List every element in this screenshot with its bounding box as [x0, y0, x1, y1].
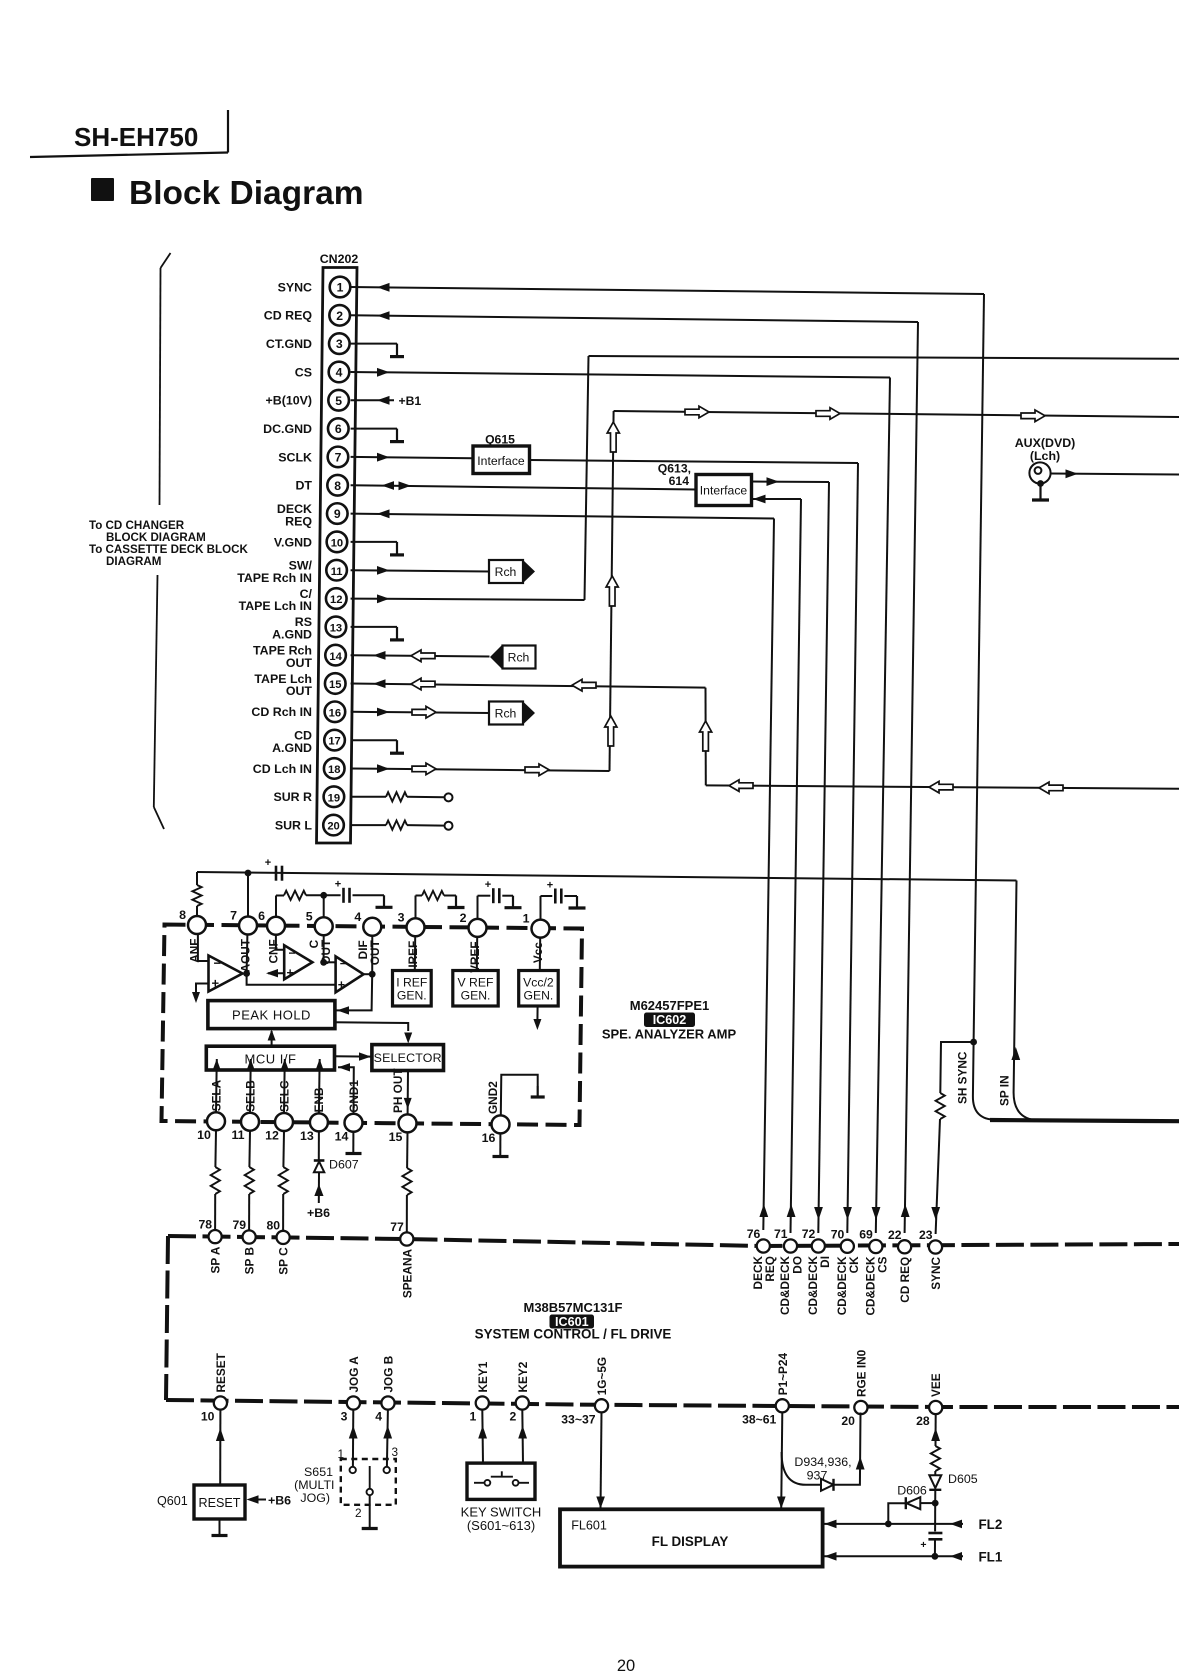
wire CNF pin6 to A2 inverting input: [276, 935, 284, 950]
IC602 dashed boundary: [162, 925, 583, 1126]
thick speaker line to page edge: [990, 1120, 1179, 1121]
wire IC602 pin6 up: [275, 896, 277, 926]
wire A3 output to DIF OUT pin4: [364, 973, 373, 975]
ground at pin3: [396, 344, 398, 357]
wire IC602 pin3 up: [415, 896, 417, 928]
svg-text:SPE. ANALYZER AMP: SPE. ANALYZER AMP: [602, 1027, 737, 1042]
svg-text:JOG B: JOG B: [382, 1356, 396, 1393]
wire pin20 SUR L with resistor: [351, 824, 386, 826]
IC602 pin 8: [188, 916, 206, 934]
open arrow left on pin15 wire (2): [572, 679, 596, 691]
svg-text:RESET: RESET: [214, 1352, 228, 1392]
wire DIF OUT down to PEAK HOLD with arrow: [337, 974, 373, 1010]
svg-text:1G~5G: 1G~5G: [595, 1357, 609, 1395]
open arrow left on return line (1): [729, 780, 753, 792]
svg-text:+: +: [547, 879, 553, 891]
junction dot above pin5: [320, 892, 327, 899]
arrowhead up on SP IN riser: [1011, 1047, 1020, 1060]
title Block Diagram: [91, 175, 364, 212]
junction dot SH SYNC node: [970, 1039, 977, 1046]
open arrow right on pin18 wire (2): [525, 764, 549, 776]
svg-text:+B6: +B6: [268, 1494, 291, 1508]
svg-text:14: 14: [329, 651, 342, 663]
IC601 pin 23: [929, 1240, 942, 1253]
svg-text:CD REQ: CD REQ: [264, 309, 313, 323]
wire SH SYNC branch to pin23 with resistor: [940, 1042, 973, 1093]
svg-text:V REF: V REF: [458, 976, 494, 990]
wire SELB MCU to pin11 with arrow: [249, 1070, 252, 1113]
wire pin18 CD Lch IN to riser: [351, 769, 610, 772]
svg-text:P1~P24: P1~P24: [776, 1353, 790, 1396]
arrowhead +B6 into RESET box: [247, 1495, 259, 1503]
svg-text:937: 937: [807, 1469, 828, 1483]
arrowhead FL2: [950, 1520, 962, 1529]
svg-text:SUR L: SUR L: [275, 818, 313, 832]
svg-text:4: 4: [336, 366, 343, 380]
svg-text:Vcc/2: Vcc/2: [523, 976, 554, 990]
arrowhead into pin14: [373, 651, 386, 660]
IC601 pin 72: [812, 1239, 825, 1252]
svg-text:80: 80: [267, 1218, 281, 1232]
svg-text:VEE: VEE: [929, 1373, 943, 1397]
arrowhead out of pin4: [377, 368, 390, 377]
arrowhead into pin1: [377, 283, 390, 292]
IC602 pin 2: [469, 919, 487, 937]
open terminal SUR L: [445, 822, 453, 830]
wire diodes to RGE IN0 pin20 with arrow: [834, 1413, 861, 1485]
svg-text:3: 3: [398, 910, 405, 924]
wire A2 non-inverting input with left arrow: [268, 972, 284, 974]
svg-text:(Lch): (Lch): [1030, 449, 1060, 463]
svg-text:78: 78: [199, 1218, 213, 1232]
IC602 pin 14: [345, 1114, 363, 1132]
open arrow right on pin18 wire (1): [412, 763, 436, 775]
wire CS vertical (pin4 to IC601 pin69): [876, 378, 890, 1234]
IC601 dashed boundary lower line: [166, 1400, 1179, 1407]
open arrow up on pin18 riser (2): [606, 576, 618, 606]
svg-text:20: 20: [327, 821, 339, 833]
svg-text:AOUT: AOUT: [239, 938, 253, 972]
IC602 pin 3: [407, 918, 425, 936]
capacitor above pin1 (+): [554, 889, 557, 904]
wire GND1 pin14 up and left into MCU I/F with arrow: [338, 1067, 354, 1113]
svg-text:8: 8: [334, 479, 341, 493]
svg-text:12: 12: [265, 1129, 279, 1143]
wire pin7 SCLK to interface Q615: [351, 457, 473, 458]
ground below IC602 pin16: [499, 1133, 501, 1155]
svg-text:Interface: Interface: [700, 484, 748, 498]
arrowhead up on IC601 pin76 wire: [759, 1204, 768, 1217]
CN202 pin 16: [325, 702, 346, 723]
svg-text:SPEANA: SPEANA: [400, 1249, 414, 1299]
page header tab SH-EH750: [30, 110, 228, 157]
wire IC602 pin10 to IC601 pin78 with resistor: [214, 1130, 217, 1167]
svg-text:76: 76: [747, 1227, 761, 1241]
wire CD REQ vertical (pin2 to IC601 pin22): [905, 322, 918, 1233]
arrowhead into pin9: [377, 509, 390, 518]
ground at AUX jack: [1039, 486, 1041, 500]
wire IC602 pin2 up: [477, 896, 479, 928]
svg-text:17: 17: [328, 736, 340, 748]
capacitor on top rail (+): [275, 866, 278, 881]
ground right of pin5 capacitor: [383, 895, 385, 907]
svg-text:FL DISPLAY: FL DISPLAY: [652, 1534, 729, 1549]
diode D607 on IC602 pin13 supply: [318, 1131, 320, 1160]
CN202 pin 5: [328, 390, 349, 411]
svg-text:SP A: SP A: [209, 1246, 223, 1273]
wire pin18 top line to page edge: [614, 411, 1179, 417]
op-amp A1 (ANF): [209, 956, 243, 992]
wire branch from P1~P24 to diodes D934,936,937: [782, 1452, 820, 1485]
open arrow left on pin14 wire: [411, 650, 435, 662]
open arrow up on TAPE Lch jog: [700, 721, 712, 751]
svg-text:SYNC: SYNC: [278, 280, 312, 294]
svg-text:D934,936,: D934,936,: [794, 1455, 851, 1469]
wire pin4 CS to corner: [351, 372, 890, 378]
IC601 pin 28: [929, 1401, 942, 1414]
svg-text:3: 3: [341, 1410, 348, 1424]
wire pin14 TAPE Rch OUT from tag: [351, 655, 490, 656]
wire AOUT pin7 down to A1 output: [246, 935, 249, 974]
IC601 pin 1: [476, 1396, 489, 1409]
CN202 pin 18: [324, 758, 345, 779]
arrowhead down on IC601 pin23 wire: [931, 1207, 940, 1220]
svg-text:614: 614: [669, 474, 690, 488]
svg-text:72: 72: [802, 1227, 816, 1241]
CN202 pin 9: [327, 503, 348, 524]
open arrow right on pin18 top line (2): [816, 408, 840, 420]
svg-text:OUT: OUT: [286, 684, 313, 698]
IC602 pin 6: [267, 917, 285, 935]
svg-text:−: −: [289, 946, 296, 960]
svg-text:V.GND: V.GND: [274, 535, 312, 549]
svg-text:Rch: Rch: [495, 565, 517, 579]
svg-text:D607: D607: [329, 1158, 359, 1172]
IC601 pin 38~61: [776, 1399, 789, 1412]
wire AUX jack output to page edge: [1051, 474, 1179, 475]
svg-text:Rch: Rch: [495, 707, 517, 721]
svg-text:TAPE Rch IN: TAPE Rch IN: [237, 571, 312, 585]
svg-text:(MULTI: (MULTI: [294, 1478, 334, 1492]
wire Vcc pin1 down to Vcc/2 GEN: [539, 938, 541, 971]
svg-text:OUT: OUT: [286, 656, 313, 670]
ground inside IC602 (GND2): [537, 1086, 539, 1097]
open arrow right on pin18 top line (3): [1021, 410, 1045, 422]
IC601 pin 3: [347, 1396, 360, 1409]
svg-text:SUR R: SUR R: [273, 790, 312, 804]
svg-text:22: 22: [888, 1228, 902, 1242]
op-amp A2 (CNF): [284, 945, 312, 979]
arrowhead into pin8 (left): [382, 481, 395, 490]
block KEY SWITCH: [467, 1463, 535, 1499]
svg-text:69: 69: [859, 1228, 873, 1242]
svg-text:Block Diagram: Block Diagram: [129, 175, 364, 212]
IC601 pin 69: [869, 1240, 882, 1253]
IC601 pin 2: [516, 1396, 529, 1409]
IC601 pin 78: [209, 1230, 222, 1243]
S651 contact 1: [350, 1467, 356, 1473]
svg-text:+: +: [338, 978, 345, 992]
wire Q613 input from IC601 pin71: [752, 498, 802, 500]
wire pin16 CD Rch IN to tag: [351, 712, 490, 713]
IC602 pin 15: [399, 1114, 417, 1132]
interface box Q613,614: [658, 462, 752, 506]
svg-text:1: 1: [337, 281, 344, 295]
svg-text:28: 28: [916, 1414, 930, 1428]
diode D606: [905, 1497, 907, 1509]
top rail capacitor line (AOUT to SP IN corner): [197, 872, 1017, 881]
resistor pin6 to pin5 junction: [284, 891, 306, 900]
svg-text:16: 16: [329, 707, 341, 719]
wire ANF to op-amp A1 inverting input: [198, 934, 209, 961]
svg-text:KEY2: KEY2: [516, 1361, 530, 1392]
wire FL1 line into FL DISPLAY with arrow: [824, 1555, 935, 1557]
ground at pin13: [396, 627, 398, 640]
wire IC601 P1~P24 to FL DISPLAY with arrow: [781, 1412, 782, 1509]
svg-text:JOG): JOG): [300, 1491, 330, 1505]
svg-text:FL1: FL1: [979, 1550, 1003, 1565]
wire Q613 output to IC601 pin72: [752, 481, 830, 484]
block MCU I/F: [206, 1046, 334, 1070]
CN202 pin 20: [323, 815, 344, 836]
S651 pole lever: [369, 1466, 371, 1489]
wire SELA MCU to pin10 with arrow: [215, 1070, 218, 1113]
svg-text:IREF: IREF: [406, 941, 420, 968]
svg-text:RGE IN0: RGE IN0: [854, 1349, 868, 1397]
svg-text:+B1: +B1: [399, 394, 422, 408]
arrowhead on pin8 wire (right): [399, 481, 412, 490]
wire ENB MCU to pin13 with arrow: [318, 1070, 321, 1113]
wire FL1 from right: [935, 1555, 963, 1557]
note To CD CHANGER / CASSETTE DECK bracket: [154, 253, 171, 829]
wire KEY SWITCH to IC601 pin1 with arrow: [481, 1410, 484, 1464]
wire PEAK HOLD output to SELECTOR with arrow: [335, 1022, 408, 1031]
svg-text:ENB: ENB: [312, 1087, 326, 1112]
wire VEE pin28 down with arrow: [935, 1414, 937, 1446]
resistor on SUR L: [386, 821, 407, 830]
svg-text:DIAGRAM: DIAGRAM: [106, 555, 161, 568]
svg-text:S651: S651: [304, 1465, 333, 1479]
arrowhead out of Q613 interface: [767, 477, 780, 486]
open arrow right on pin16 wire: [412, 706, 436, 718]
arrowhead out of pin7: [377, 453, 390, 462]
arrowhead on AUX output: [1066, 469, 1079, 478]
label KEY SWITCH (S601~613): [461, 1505, 542, 1534]
wire pin18 riser with open up arrows: [610, 411, 614, 771]
svg-text:M62457FPE1: M62457FPE1: [630, 998, 710, 1013]
op-amp A3 (DIF): [336, 956, 364, 992]
wire S651 pole to ground: [369, 1495, 371, 1527]
wire SELC MCU to pin12 with arrow: [283, 1070, 286, 1113]
svg-text:13: 13: [330, 622, 342, 634]
svg-text:+: +: [485, 879, 491, 891]
svg-text:18: 18: [328, 764, 340, 776]
CN202 pin 1: [330, 277, 351, 298]
svg-text:SH SYNC: SH SYNC: [956, 1051, 970, 1104]
svg-text:Rch: Rch: [508, 651, 530, 665]
svg-text:OUT: OUT: [368, 940, 382, 966]
wire IC602 pin12 to IC601 pin80 with resistor: [282, 1131, 285, 1167]
svg-text:(S601~613): (S601~613): [467, 1518, 535, 1533]
svg-text:3: 3: [336, 337, 343, 351]
CN202 pin 15: [325, 673, 346, 694]
svg-text:13: 13: [300, 1129, 314, 1143]
svg-text:1: 1: [337, 1447, 344, 1461]
wire FL2 from right: [888, 1523, 963, 1525]
wire SELECTOR down to PH OUT pin15 with arrow: [407, 1071, 409, 1115]
wire S651 contact1 to IC601 pin3 with arrow: [352, 1410, 354, 1467]
svg-text:PEAK HOLD: PEAK HOLD: [232, 1008, 311, 1023]
tag Rch (pin14, from tape deck): [490, 646, 536, 669]
ground at pin6: [396, 429, 398, 442]
block Vcc/2 GEN.: [519, 971, 559, 1007]
svg-text:KEY1: KEY1: [476, 1361, 490, 1392]
wire pin2 CD REQ to corner: [351, 315, 918, 322]
arrowhead out of pin18: [377, 764, 390, 773]
svg-text:20: 20: [841, 1414, 855, 1428]
label S651 (MULTI JOG): [294, 1465, 334, 1505]
IC601 pin 33~37: [595, 1399, 608, 1412]
CN202 pin 13: [326, 617, 347, 638]
IC602 pin 4: [363, 918, 381, 936]
svg-text:Vcc: Vcc: [531, 942, 545, 963]
IC601 pin 22: [898, 1240, 911, 1253]
switch S651 (MULTI JOG) dashed box: [341, 1459, 396, 1505]
svg-text:20: 20: [617, 1657, 635, 1672]
capacitor below D605-D606 junction: [934, 1503, 936, 1531]
svg-text:DI: DI: [818, 1256, 832, 1268]
arrowhead into pin15: [373, 679, 386, 688]
CN202 pin 17: [324, 730, 345, 751]
svg-text:19: 19: [328, 792, 340, 804]
wire IC602 pin11 to IC601 pin79 with resistor: [248, 1131, 251, 1167]
svg-text:I REF: I REF: [396, 976, 427, 990]
svg-text:10: 10: [201, 1410, 215, 1424]
CN202 pin 8: [327, 475, 348, 496]
svg-text:+: +: [265, 857, 271, 869]
svg-text:PH OUT: PH OUT: [391, 1068, 405, 1113]
svg-text:GEN.: GEN.: [524, 989, 554, 1003]
arrowhead into pin2: [377, 311, 390, 320]
capacitor right of pin5 junction (+): [324, 894, 341, 896]
svg-text:ANF: ANF: [188, 939, 202, 963]
junction dot FL1 node: [932, 1553, 939, 1560]
svg-text:GEN.: GEN.: [397, 989, 427, 1003]
CN202 pin 10: [327, 532, 348, 553]
svg-text:7: 7: [230, 909, 237, 923]
IC602 pin 12: [275, 1113, 293, 1131]
arrowhead out of pin12: [377, 594, 390, 603]
CN202 pin 14: [325, 645, 346, 666]
svg-text:4: 4: [375, 1410, 382, 1424]
interface box Q615: [473, 446, 530, 474]
tag Rch (pin16, from CD): [489, 702, 535, 725]
CN202 pin 3: [329, 333, 350, 354]
wire TAPE Lch OUT jog (z-link to long return line): [705, 688, 707, 786]
CN202 pin name labels: [237, 280, 312, 832]
resistor below VEE: [931, 1446, 940, 1471]
svg-text:DT: DT: [295, 479, 312, 493]
svg-text:JOG A: JOG A: [347, 1356, 361, 1393]
IC602 part number label: [602, 998, 737, 1042]
IC601 dashed boundary upper line: [168, 1236, 1179, 1246]
IC601 pin 77: [400, 1232, 413, 1245]
svg-text:IC602: IC602: [653, 1013, 687, 1027]
svg-text:SELB: SELB: [243, 1080, 257, 1111]
IC602 pin 10: [207, 1112, 225, 1130]
wire GND2 pin16 jog to ground: [501, 1075, 538, 1115]
svg-text:23: 23: [919, 1228, 933, 1242]
ground below S651: [362, 1527, 378, 1530]
svg-text:SP IN: SP IN: [998, 1075, 1012, 1106]
wire pin6 DC.GND stub: [351, 428, 397, 430]
svg-text:14: 14: [335, 1129, 349, 1143]
svg-text:FL2: FL2: [979, 1517, 1003, 1532]
svg-text:Q601: Q601: [157, 1494, 188, 1508]
svg-text:11: 11: [231, 1128, 244, 1142]
wire pin1 SYNC to corner: [351, 287, 984, 294]
resistor above pin3: [422, 891, 444, 900]
svg-text:AUX(DVD): AUX(DVD): [1015, 436, 1076, 450]
wire pin9 DECK REQ to corner: [351, 514, 774, 519]
block PEAK HOLD: [208, 1001, 335, 1029]
junction dot below D605: [934, 1490, 936, 1503]
svg-text:+: +: [335, 879, 341, 891]
svg-text:5: 5: [335, 394, 342, 408]
open terminal SUR R: [445, 793, 453, 801]
svg-text:79: 79: [233, 1218, 247, 1232]
svg-text:2: 2: [355, 1506, 362, 1520]
wire IC601 pin10 to RESET box with arrow: [219, 1410, 221, 1485]
arrowhead down on IC601 pin72 wire: [814, 1207, 823, 1220]
wire KEY SWITCH to IC601 pin2 with arrow: [521, 1410, 524, 1464]
svg-text:16: 16: [482, 1131, 496, 1145]
svg-text:+B6: +B6: [307, 1206, 330, 1220]
svg-text:SYNC: SYNC: [929, 1257, 943, 1290]
svg-text:D605: D605: [948, 1472, 978, 1486]
wire long return line y786 to page edge: [706, 785, 1179, 788]
IC602 pin 7: [239, 917, 257, 935]
arrowhead down on IC601 pin69 wire: [872, 1207, 881, 1220]
resistor on SYNC line to pin23: [936, 1093, 945, 1119]
arrowhead out of pin11: [377, 566, 390, 575]
junction dot above pin7: [245, 870, 252, 877]
wire MCU I/F to SELECTOR with arrow: [335, 1055, 372, 1057]
arrowhead into Q613 interface: [753, 495, 766, 504]
svg-text:SYSTEM CONTROL / FL DRIVE: SYSTEM CONTROL / FL DRIVE: [475, 1327, 672, 1342]
IC601 pin 70: [841, 1240, 854, 1253]
resistor above IC602 pin8: [192, 885, 201, 906]
junction dot FL2 node: [885, 1521, 892, 1528]
resistor on SUR R: [386, 792, 407, 801]
svg-text:3: 3: [392, 1445, 399, 1459]
svg-text:4: 4: [354, 910, 361, 924]
wire A2 output to op-amp A3 inverting input: [324, 961, 336, 963]
svg-text:VREF: VREF: [468, 941, 482, 972]
arrowhead FL1: [950, 1552, 962, 1561]
note text To CD CHANGER BLOCK DIAGRAM / To CASSETTE DECK BLOCK DIAGRAM: [89, 519, 249, 568]
svg-text:SP C: SP C: [277, 1247, 291, 1275]
svg-text:CS: CS: [876, 1256, 890, 1273]
svg-text:7: 7: [335, 451, 342, 465]
CN202 pin 4: [329, 362, 350, 383]
connector CN202 body: [317, 268, 358, 844]
svg-text:77: 77: [390, 1220, 404, 1234]
wire Vcc/2 GEN output down arrow: [536, 1006, 538, 1022]
wire D606 to FL2 node: [888, 1503, 906, 1524]
svg-text:15: 15: [329, 679, 341, 691]
wire op-amp A1 non-inverting input with down arrow: [196, 984, 209, 993]
